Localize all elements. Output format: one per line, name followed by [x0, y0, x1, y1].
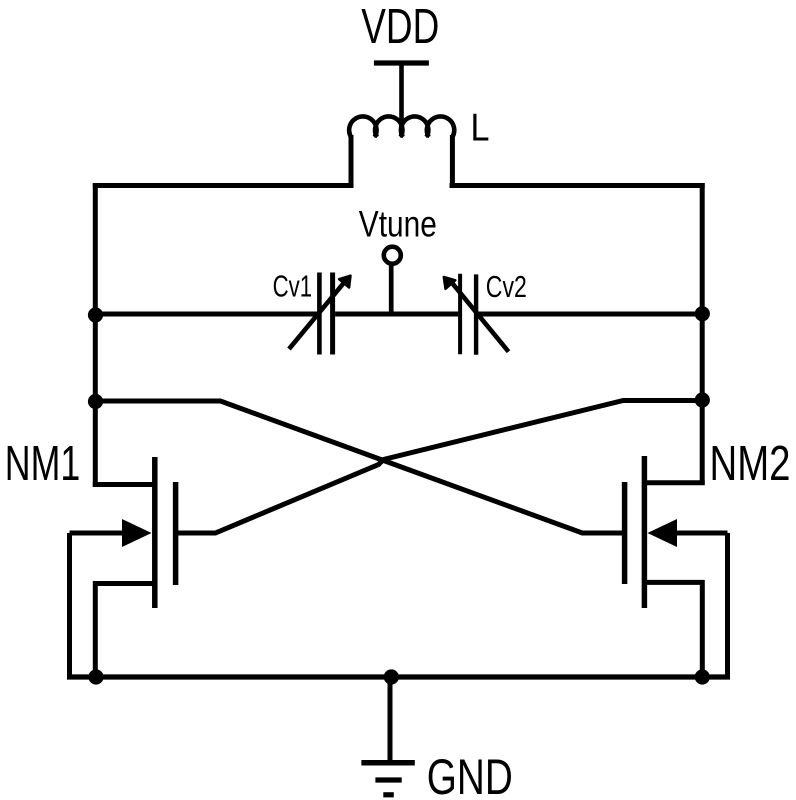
svg-text:Vtune: Vtune — [359, 203, 437, 244]
svg-text:Cv1: Cv1 — [273, 269, 313, 304]
svg-text:L: L — [471, 107, 490, 150]
svg-text:Cv2: Cv2 — [486, 269, 527, 304]
svg-text:GND: GND — [427, 749, 513, 800]
svg-text:NM1: NM1 — [5, 437, 81, 491]
svg-text:NM2: NM2 — [710, 437, 791, 491]
svg-text:VDD: VDD — [361, 0, 439, 54]
